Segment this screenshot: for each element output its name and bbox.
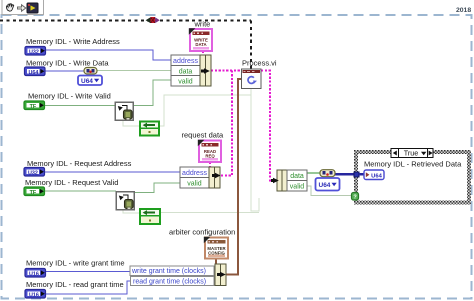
toolbar hand icon bbox=[6, 4, 13, 11]
wire valid to selector bbox=[307, 186, 352, 196]
wire tunnel to indicator bbox=[359, 173, 364, 176]
bundle by name arbiter bbox=[130, 266, 214, 275]
svg-text:Memory IDL - Request Valid: Memory IDL - Request Valid bbox=[25, 178, 118, 187]
svg-text:valid: valid bbox=[290, 184, 305, 191]
wire write address bbox=[45, 50, 171, 60]
toolbar arrow icon bbox=[18, 5, 26, 11]
wire pale green loop bbox=[159, 95, 251, 126]
wire valid to bundle bbox=[133, 80, 171, 106]
wire cluster write bbox=[202, 51, 204, 56]
svg-text:U64: U64 bbox=[28, 70, 38, 76]
cluster constant WRITE DATA bbox=[190, 29, 212, 51]
bundle by name write bbox=[171, 55, 200, 86]
unbundle by name bbox=[277, 170, 287, 191]
wire request valid bbox=[45, 190, 116, 192]
svg-text:U32: U32 bbox=[28, 170, 38, 176]
junction arrow bundle3 bbox=[217, 273, 221, 276]
svg-text:address: address bbox=[173, 58, 198, 65]
enum constant write bbox=[140, 122, 159, 136]
svg-text:Process.vi: Process.vi bbox=[242, 59, 277, 68]
terminal Memory IDL - Request Valid bbox=[24, 187, 45, 196]
wire valid2 to bundle bbox=[134, 183, 180, 193]
wire write data bbox=[45, 70, 84, 72]
terminal Memory IDL - Write Address bbox=[25, 47, 46, 56]
node write valid edge bbox=[115, 102, 133, 120]
junction arrow unbundle bbox=[271, 179, 274, 182]
wire request address bbox=[45, 171, 180, 173]
svg-text:valid: valid bbox=[187, 181, 202, 188]
terminal Memory IDL - write grant time bbox=[25, 269, 46, 278]
wire cluster request trunk bbox=[221, 71, 232, 176]
svg-text:U64: U64 bbox=[371, 173, 382, 179]
case selector label bbox=[391, 149, 433, 158]
enum constant read bbox=[140, 209, 160, 224]
cluster constant READ REQ bbox=[199, 141, 221, 163]
subVI Process.vi bbox=[242, 69, 262, 89]
svg-text:U64: U64 bbox=[319, 182, 331, 189]
svg-text:REQ: REQ bbox=[205, 154, 215, 159]
toolbar labview icon bbox=[27, 3, 38, 13]
svg-text:arbiter configuration: arbiter configuration bbox=[169, 228, 235, 237]
svg-text:U16: U16 bbox=[29, 271, 39, 277]
svg-text:Memory IDL - write grant time: Memory IDL - write grant time bbox=[26, 259, 125, 268]
svg-text:request data: request data bbox=[182, 131, 225, 140]
terminal Memory IDL - read grant time bbox=[25, 290, 46, 299]
case selector terminal bbox=[352, 193, 359, 201]
svg-text:write: write bbox=[194, 20, 211, 29]
bundle by name request bbox=[180, 167, 209, 188]
svg-text:Memory IDL - Retrieved Data: Memory IDL - Retrieved Data bbox=[364, 160, 462, 169]
svg-text:U32: U32 bbox=[29, 49, 39, 55]
wire unbundle data bbox=[307, 172, 320, 174]
wire cluster read req bbox=[209, 162, 211, 167]
svg-text:DATA: DATA bbox=[195, 42, 206, 47]
node request valid edge bbox=[116, 192, 134, 210]
svg-text:U16: U16 bbox=[29, 292, 39, 298]
cluster constant MASTER CONFIG bbox=[205, 238, 228, 259]
ring constant U64 (write) bbox=[78, 76, 102, 86]
svg-text:data: data bbox=[179, 68, 193, 75]
svg-text:2018: 2018 bbox=[456, 7, 471, 14]
terminal Memory IDL - Write Valid bbox=[24, 101, 45, 110]
conversion node U64 (read) bbox=[320, 170, 335, 177]
svg-text:Memory IDL - Write Address: Memory IDL - Write Address bbox=[26, 37, 120, 46]
svg-text:Memory IDL - Write Valid: Memory IDL - Write Valid bbox=[28, 92, 111, 101]
junction arrow bundle2 bbox=[212, 174, 216, 177]
wire arbiter cluster bbox=[215, 259, 217, 265]
wire write valid bbox=[45, 105, 115, 107]
svg-text:Memory IDL - Write Data: Memory IDL - Write Data bbox=[26, 59, 109, 68]
svg-text:valid: valid bbox=[178, 79, 193, 86]
wire u64 to case bbox=[335, 173, 364, 176]
svg-text:True: True bbox=[404, 149, 419, 158]
tunnel bbox=[354, 172, 359, 177]
ring constant U64 (read) bbox=[316, 178, 340, 191]
case structure True bbox=[354, 150, 471, 205]
svg-text:TF: TF bbox=[30, 190, 37, 196]
svg-text:read grant time (clocks): read grant time (clocks) bbox=[133, 279, 206, 286]
wire cluster process out bbox=[261, 71, 272, 181]
wire data to bundle bbox=[97, 70, 171, 72]
svg-text:data: data bbox=[290, 173, 304, 180]
svg-text:address: address bbox=[182, 170, 207, 177]
svg-text:write grant time (clocks): write grant time (clocks) bbox=[131, 268, 206, 275]
wire write grant bbox=[46, 271, 131, 273]
broken wire glyph bbox=[146, 17, 151, 23]
svg-text:Memory IDL - read grant time: Memory IDL - read grant time bbox=[26, 280, 124, 289]
svg-text:TF: TF bbox=[30, 104, 37, 110]
terminal Memory IDL - Write Data bbox=[25, 67, 46, 76]
terminal Memory IDL - Request Address bbox=[24, 168, 45, 177]
junction arrow bundle1 bbox=[201, 70, 205, 73]
toolbar bbox=[2, 0, 44, 15]
wire cluster to process bbox=[211, 70, 242, 72]
broken wire bbox=[0, 20, 251, 22]
indicator Memory IDL - Retrieved Data bbox=[364, 170, 384, 180]
svg-text:U64: U64 bbox=[81, 78, 93, 85]
svg-text:Memory IDL - Request Address: Memory IDL - Request Address bbox=[27, 159, 132, 168]
conversion node U64 (write) bbox=[84, 68, 97, 75]
wire read grant bbox=[46, 281, 132, 294]
